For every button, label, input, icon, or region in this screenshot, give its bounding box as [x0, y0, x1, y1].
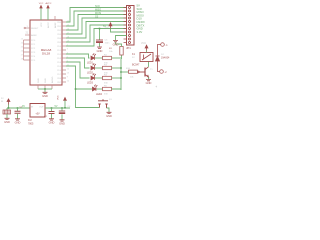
junction row4/button	[75, 88, 77, 90]
svg-text:PD0: PD0	[57, 46, 62, 48]
svg-text:PC1: PC1	[31, 44, 36, 46]
right side pin stubs of IC1	[62, 22, 66, 82]
wire to capacitor C5	[99, 29, 101, 41]
svg-text:AVCC: AVCC	[46, 2, 52, 5]
svg-text:9: 9	[67, 76, 69, 78]
svg-text:1N4004: 1N4004	[161, 57, 170, 60]
svg-text:GND: GND	[45, 78, 47, 83]
wire net MISO to JP1	[66, 11, 127, 26]
svg-text:PB6: PB6	[57, 78, 62, 80]
LED3	[91, 73, 96, 80]
svg-text:GND: GND	[146, 81, 152, 85]
junction at VCC arrow on rail	[64, 107, 66, 109]
LED4	[93, 85, 98, 91]
wire LED row4 from IC	[66, 66, 92, 89]
svg-text:10k: 10k	[130, 77, 134, 79]
wire net MOSI to JP1	[66, 15, 127, 31]
svg-text:VCC: VCC	[105, 27, 110, 29]
bottom pins GND/AGND of IC1	[38, 85, 52, 89]
svg-text:GND: GND	[42, 94, 48, 98]
svg-text:PD1: PD1	[57, 50, 62, 52]
svg-text:10k: 10k	[109, 51, 113, 53]
junction on 5V line	[99, 28, 101, 30]
emitter wire to ground	[148, 77, 150, 79]
ground under C4	[60, 120, 65, 121]
svg-text:R1: R1	[109, 48, 113, 50]
svg-text:9V: 9V	[1, 98, 4, 100]
junction bus row3	[120, 77, 122, 79]
terminal X1-1	[161, 43, 165, 47]
svg-text:LED1: LED1	[87, 62, 94, 65]
svg-text:PC5: PC5	[31, 60, 36, 62]
wire down to button S1	[76, 89, 100, 108]
svg-text:PB3: PB3	[57, 34, 62, 36]
ground at JP1	[116, 36, 127, 41]
left pin ladder PC0-PC5 tie	[23, 40, 25, 60]
svg-text:SS: SS	[95, 16, 99, 19]
wire net D9 to JP1	[66, 22, 127, 39]
pin-name column inside IC right	[57, 22, 62, 84]
svg-text:LED4: LED4	[96, 93, 103, 96]
supply VCC arrow above K1	[146, 51, 148, 53]
svg-text:VCC: VCC	[57, 95, 59, 100]
svg-text:21: 21	[26, 32, 29, 35]
capacitor C5	[96, 39, 103, 41]
wire net D7 to JP1	[66, 29, 127, 47]
LED2	[91, 63, 96, 70]
pin AVCC top pin 20	[47, 8, 49, 20]
supply AVCC arrow P+2	[47, 5, 49, 8]
svg-text:C5: C5	[105, 40, 109, 42]
net label column right of JP1	[137, 4, 145, 34]
svg-text:GND: GND	[15, 121, 21, 125]
svg-text:9V: 9V	[22, 105, 25, 108]
svg-text:PB5: PB5	[57, 42, 62, 44]
svg-text:PC4: PC4	[31, 56, 36, 58]
resistor R4	[95, 77, 103, 79]
svg-text:LED2: LED2	[87, 72, 94, 75]
svg-text:GND: GND	[49, 121, 55, 125]
connector JP1 box	[127, 6, 135, 46]
svg-text:VCC: VCC	[41, 22, 43, 27]
wire LED row2 from IC	[66, 58, 90, 68]
svg-text:S1: S1	[109, 99, 112, 101]
svg-text:12: 12	[67, 68, 70, 70]
pin AREF top pin 21 stub	[54, 16, 56, 20]
svg-text:330: 330	[104, 94, 108, 96]
svg-text:GND: GND	[113, 43, 119, 47]
voltage regulator IC2 box	[30, 104, 45, 118]
svg-text:3.3V: 3.3V	[137, 30, 143, 34]
resistor R10	[129, 70, 138, 73]
svg-text:JP1: JP1	[126, 46, 131, 50]
terminal X1-2	[160, 70, 164, 74]
wire tying bottom pins	[38, 88, 52, 90]
JP1 pin stubs	[124, 8, 127, 43]
junction at arrow	[8, 107, 10, 109]
svg-text:BC547: BC547	[132, 64, 140, 67]
wire LED row1 from IC	[66, 54, 90, 58]
pin numbers right side	[67, 20, 70, 82]
ground under S1	[107, 112, 112, 113]
transistor T1	[138, 67, 149, 77]
svg-text:AVCC: AVCC	[47, 22, 50, 28]
svg-text:PC0: PC0	[31, 40, 36, 42]
svg-text:OUT: OUT	[39, 107, 44, 109]
resistor R2	[95, 57, 103, 59]
svg-text:PB0: PB0	[57, 22, 62, 24]
svg-text:3: 3	[67, 48, 69, 50]
svg-text:PD4: PD4	[57, 62, 62, 64]
collector wire to relay	[148, 62, 150, 67]
svg-text:PD7: PD7	[57, 74, 62, 76]
svg-text:100n: 100n	[105, 43, 111, 45]
ground under IC1	[44, 89, 46, 92]
junction bus base branch	[120, 71, 122, 73]
wire base branch to R10	[121, 71, 129, 73]
supply VCC arrow P+1	[40, 5, 42, 8]
junction bus row2	[120, 67, 122, 69]
supply VCC arrow at JP1	[111, 29, 124, 33]
LED1	[91, 53, 96, 60]
wire net SCK to JP1	[66, 8, 127, 23]
svg-text:PB7: PB7	[57, 82, 62, 84]
svg-text:PD6: PD6	[57, 70, 62, 72]
supply VCC arrow on rail	[64, 97, 67, 100]
svg-text:PD3: PD3	[57, 58, 62, 60]
svg-text:PB2: PB2	[57, 30, 62, 32]
capacitor C2	[17, 108, 19, 111]
wire LED row3 from IC	[66, 62, 90, 78]
svg-text:VCC: VCC	[39, 3, 44, 5]
svg-text:-2: -2	[165, 71, 168, 74]
svg-text:T1: T1	[150, 69, 153, 71]
ground under C2	[15, 119, 20, 120]
svg-text:RESET: RESET	[31, 28, 39, 30]
input rail wire	[7, 107, 30, 109]
capacitor C4 electrolytic	[61, 108, 63, 111]
svg-text:PD5: PD5	[57, 66, 62, 68]
power input arrow	[7, 99, 10, 105]
output rail wire	[45, 107, 70, 109]
ground under C5	[97, 47, 102, 48]
wire S1 to ground	[107, 108, 110, 112]
svg-text:GND: GND	[4, 120, 10, 124]
resistor R1 vertical	[121, 55, 123, 59]
svg-text:GND: GND	[59, 122, 65, 126]
svg-text:+5V: +5V	[35, 113, 40, 116]
LED common bus	[120, 59, 122, 90]
svg-text:+: +	[155, 85, 157, 89]
svg-text:PB1: PB1	[57, 26, 62, 28]
svg-text:AREF: AREF	[31, 34, 37, 37]
junction at IC ground tie	[44, 88, 46, 90]
svg-text:AGND: AGND	[51, 76, 54, 83]
svg-text:LED3: LED3	[87, 82, 94, 85]
svg-text:-1: -1	[166, 44, 169, 47]
svg-text:5V: 5V	[55, 105, 58, 108]
ground under C3	[49, 119, 54, 120]
svg-text:5V: 5V	[132, 57, 135, 59]
capacitor C3	[51, 108, 53, 111]
svg-text:330: 330	[104, 83, 108, 85]
small green net labels above wires	[95, 5, 101, 19]
svg-text:10: 10	[67, 80, 70, 82]
svg-text:PD2: PD2	[57, 54, 62, 56]
junction at C3	[51, 107, 53, 109]
svg-text:PC3: PC3	[31, 52, 36, 54]
pin RESET left pin 1	[26, 27, 30, 29]
svg-text:GND: GND	[106, 114, 112, 118]
resistor R3	[95, 67, 103, 69]
svg-text:IN: IN	[31, 107, 34, 109]
junction at C1	[17, 107, 19, 109]
pin VCC top pin 7	[40, 8, 42, 20]
pin numbers left side	[21, 38, 24, 60]
svg-text:PB4: PB4	[57, 38, 62, 40]
diode D2 vertical with wires	[158, 45, 161, 72]
relay K1 coil box	[140, 53, 153, 62]
pushbutton S1	[98, 99, 108, 108]
svg-text:GND: GND	[38, 78, 40, 83]
svg-text:IN: IN	[1, 101, 4, 103]
IC IC1 MEGA8 body	[30, 20, 62, 85]
svg-text:GND: GND	[97, 49, 103, 53]
JP1 pin circles	[129, 7, 131, 44]
wire net SS to JP1	[66, 18, 127, 34]
svg-text:13: 13	[67, 72, 70, 74]
svg-text:DIL28: DIL28	[42, 52, 50, 56]
svg-text:C4: C4	[68, 106, 72, 108]
svg-text:VCC: VCC	[141, 42, 146, 45]
resistor R5	[97, 88, 103, 90]
ground under C1	[5, 118, 10, 119]
wire net D8 to JP1	[66, 25, 127, 42]
capacitor C1 polarized (hatched)	[6, 108, 8, 110]
svg-text:K1: K1	[132, 53, 136, 56]
svg-text:7805: 7805	[28, 123, 34, 126]
pin AREF left pin 21	[25, 34, 30, 36]
svg-text:PC2: PC2	[31, 48, 36, 50]
ground under T1	[146, 80, 151, 81]
svg-text:C2: C2	[44, 116, 48, 118]
junction at C4	[61, 107, 63, 109]
